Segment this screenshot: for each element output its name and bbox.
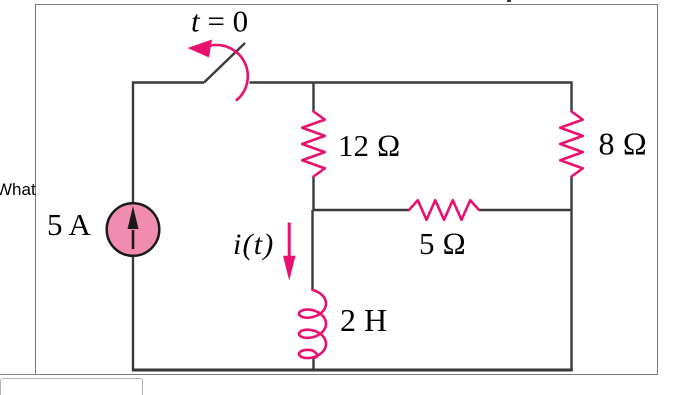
svg-text:5 A: 5 A <box>47 207 92 242</box>
svg-text:t = 0: t = 0 <box>191 4 248 39</box>
svg-text:i(t): i(t) <box>233 228 274 261</box>
svg-text:12 Ω: 12 Ω <box>338 128 401 163</box>
svg-text:2 H: 2 H <box>340 302 387 338</box>
svg-text:5 Ω: 5 Ω <box>419 226 466 261</box>
svg-text:8 Ω: 8 Ω <box>599 126 648 162</box>
